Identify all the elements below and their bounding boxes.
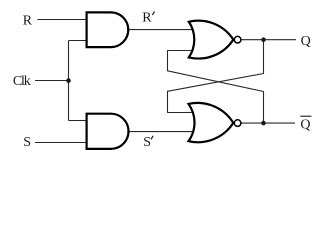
- wire R' : top AND output to top NOR upper input: [128, 29, 196, 31]
- svg-text:S: S: [23, 135, 31, 150]
- svg-text:Q: Q: [301, 34, 311, 49]
- wire S' : bottom AND output to bottom NOR lower input: [128, 131, 196, 133]
- svg-text:S: S: [143, 135, 151, 150]
- prime of R': [152, 11, 154, 15]
- node Clk junction: [66, 78, 71, 83]
- wire feedback Qbar to top NOR lower input: [168, 51, 264, 124]
- svg-text:Clk: Clk: [13, 74, 31, 89]
- overline of Qbar: [300, 115, 311, 117]
- node Q junction: [261, 37, 266, 42]
- node Qbar junction: [261, 121, 266, 126]
- wire S input: [35, 142, 88, 144]
- prime of S': [151, 136, 153, 140]
- AND gate top (R,Clk): [87, 12, 129, 47]
- wire top NOR output to Q: [242, 39, 297, 41]
- wire Clk to bottom AND upper input: [69, 120, 89, 122]
- svg-text:Q: Q: [300, 118, 310, 133]
- NOR gate top U1 body: [189, 21, 234, 59]
- NOR gate bottom bubble: [234, 120, 241, 127]
- wire feedback Q to bottom NOR upper input: [168, 40, 264, 113]
- NOR gate top bubble: [234, 36, 241, 43]
- wire Clk to top AND lower input: [69, 40, 89, 42]
- wire bottom NOR output to Qbar: [242, 122, 296, 124]
- wire Clk vertical branch: [68, 41, 70, 121]
- NOR gate bottom U2 body: [189, 103, 234, 142]
- wire R input: [38, 19, 89, 21]
- AND gate bottom (Clk,S): [87, 114, 129, 149]
- wire Clk horizontal: [35, 80, 69, 82]
- svg-text:R: R: [23, 14, 33, 29]
- svg-text:R: R: [142, 11, 152, 26]
